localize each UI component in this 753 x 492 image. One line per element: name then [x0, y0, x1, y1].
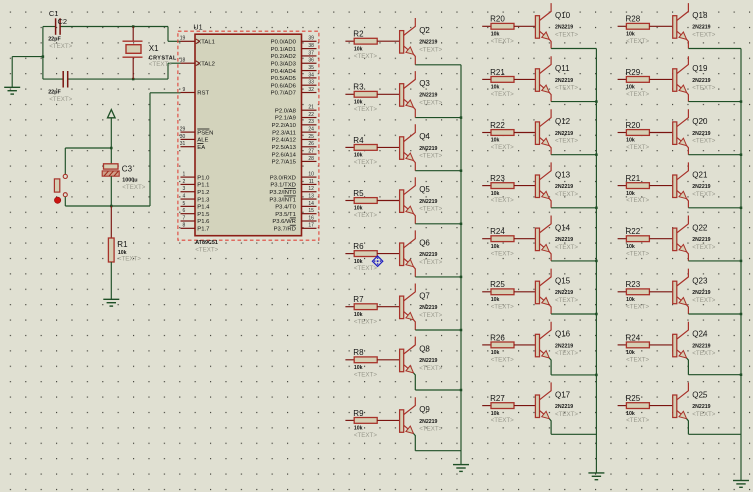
svg-text:R25: R25	[490, 280, 505, 289]
pin 10 P3.0/RXD	[270, 172, 317, 182]
svg-text:Q22: Q22	[692, 223, 708, 232]
transistor Q12	[535, 109, 573, 145]
button SW1	[54, 174, 67, 203]
label Q22 TEXT	[692, 244, 715, 251]
svg-text:32: 32	[308, 87, 314, 93]
resistor R26	[482, 333, 514, 356]
label U1 reference	[193, 22, 202, 31]
svg-text:18: 18	[180, 58, 186, 64]
wire base R24-Q24	[649, 344, 672, 346]
pin 1 P1.0	[181, 172, 211, 182]
wire emitter Q3	[414, 107, 462, 117]
label Q7 TEXT	[419, 312, 442, 319]
svg-text:14: 14	[308, 201, 314, 207]
svg-text:<TEXT>: <TEXT>	[626, 38, 649, 45]
svg-text:Q15: Q15	[555, 277, 571, 286]
svg-text:Q17: Q17	[555, 390, 571, 399]
svg-text:Q21: Q21	[692, 170, 708, 179]
pin 24 P2.3/A11	[272, 127, 316, 137]
transistor Q15	[535, 269, 573, 305]
wire emitter Q25	[687, 419, 741, 435]
svg-text:P3.7/RD: P3.7/RD	[274, 227, 296, 233]
svg-text:R23: R23	[626, 280, 641, 289]
svg-text:<TEXT>: <TEXT>	[354, 53, 377, 60]
pin 12 P3.2/INT0	[269, 186, 316, 196]
transistor Q4	[400, 124, 438, 160]
svg-text:<TEXT>: <TEXT>	[692, 297, 715, 304]
wire emitter Q8	[414, 373, 462, 390]
transistor Q20	[673, 109, 711, 145]
wire base R5-Q5	[377, 200, 399, 202]
wire emitter Q15	[549, 305, 596, 314]
label R2 TEXT	[354, 53, 377, 60]
pin 36 P0.3/AD3	[271, 58, 317, 68]
label R7 TEXT	[354, 318, 377, 325]
wire emitter Q24	[687, 358, 741, 375]
svg-text:<TEXT>: <TEXT>	[692, 411, 715, 418]
svg-text:2N2219: 2N2219	[692, 78, 710, 84]
pin 31 EA	[180, 141, 205, 151]
svg-text:<TEXT>: <TEXT>	[149, 61, 172, 68]
svg-text:34: 34	[308, 72, 314, 78]
resistor R21	[618, 174, 650, 197]
pin 23 P2.2/A10	[272, 119, 317, 129]
label R28 TEXT	[626, 38, 649, 45]
resistor R2	[345, 30, 377, 53]
svg-text:23: 23	[308, 119, 314, 125]
resistor R4	[345, 136, 377, 159]
svg-text:2N2219: 2N2219	[555, 290, 573, 296]
wire emitter Q17	[549, 419, 596, 435]
svg-text:RST: RST	[197, 91, 209, 97]
pin 32 P0.7/AD7	[271, 87, 317, 97]
svg-text:21: 21	[308, 105, 314, 111]
svg-text:P2.5/A13: P2.5/A13	[272, 145, 297, 151]
svg-text:<TEXT>: <TEXT>	[419, 153, 442, 160]
resistor R20	[618, 121, 650, 144]
svg-text:P3.1/TXD: P3.1/TXD	[270, 183, 296, 189]
svg-text:P2.0/A8: P2.0/A8	[275, 108, 297, 114]
svg-text:R27: R27	[490, 394, 505, 403]
wire emitter Q5	[414, 214, 462, 224]
wire base R4-Q4	[377, 146, 399, 148]
svg-text:Q16: Q16	[555, 330, 571, 339]
label R23 TEXT	[491, 197, 514, 204]
svg-text:<TEXT>: <TEXT>	[692, 350, 715, 357]
svg-text:<TEXT>: <TEXT>	[555, 297, 578, 304]
transistor Q3	[400, 71, 438, 107]
wire base R23-Q23	[649, 291, 672, 293]
wire emitter Q18	[687, 39, 741, 48]
label C2 TEXT	[49, 96, 72, 103]
transistor Q22	[673, 216, 711, 252]
label R20 TEXT	[626, 144, 649, 151]
label U1 value AT89C51	[195, 240, 218, 246]
svg-text:<TEXT>: <TEXT>	[354, 432, 377, 439]
svg-text:Q24: Q24	[692, 330, 708, 339]
pin 16 P3.6/WR	[272, 215, 316, 225]
resistor R24	[618, 333, 650, 356]
transistor Q9	[400, 397, 438, 433]
svg-text:2N2219: 2N2219	[419, 305, 437, 311]
svg-text:<TEXT>: <TEXT>	[626, 417, 649, 424]
wire base R22-Q12	[514, 132, 535, 134]
wire base R20-Q20	[649, 132, 672, 134]
label Q3 TEXT	[419, 100, 442, 107]
svg-text:P0.1/AD1: P0.1/AD1	[271, 47, 296, 53]
label R21 TEXT	[491, 91, 514, 98]
svg-text:R21: R21	[490, 68, 505, 77]
svg-text:10k: 10k	[626, 32, 635, 38]
pin 14 P3.4/T0	[275, 201, 316, 211]
svg-text:R9: R9	[353, 409, 364, 418]
svg-text:1000u: 1000u	[122, 178, 137, 184]
resistor R22	[618, 227, 650, 250]
svg-text:<TEXT>: <TEXT>	[419, 46, 442, 53]
svg-text:28: 28	[308, 156, 314, 162]
svg-text:<TEXT>: <TEXT>	[626, 357, 649, 364]
svg-text:XTAL2: XTAL2	[197, 61, 215, 67]
svg-text:<TEXT>: <TEXT>	[419, 365, 442, 372]
svg-text:<TEXT>: <TEXT>	[195, 246, 218, 253]
pin 37 P0.2/AD2	[271, 50, 317, 60]
transistor Q24	[673, 322, 711, 358]
svg-text:<TEXT>: <TEXT>	[49, 96, 72, 103]
wire XTAL1 net top	[43, 27, 181, 42]
svg-text:22pF: 22pF	[48, 90, 61, 96]
pin 5 P1.4	[181, 201, 211, 211]
wire base R2-Q2	[377, 40, 399, 42]
svg-text:P2.4/A12: P2.4/A12	[272, 138, 296, 144]
label X1 TEXT	[149, 61, 172, 68]
svg-text:10k: 10k	[354, 100, 363, 106]
label R5 TEXT	[354, 212, 377, 219]
svg-text:2N2219: 2N2219	[419, 40, 437, 46]
label R22 TEXT	[626, 250, 649, 257]
wire base R8-Q8	[377, 359, 399, 361]
pin 30 ALE	[180, 134, 209, 144]
transistor Q21	[673, 162, 711, 198]
pin 15 P3.5/T1	[275, 208, 316, 218]
svg-text:<TEXT>: <TEXT>	[555, 138, 578, 145]
svg-text:<TEXT>: <TEXT>	[626, 250, 649, 257]
svg-text:<TEXT>: <TEXT>	[354, 106, 377, 113]
label R20 TEXT	[491, 38, 514, 45]
wire button top	[65, 147, 112, 175]
label R9 TEXT	[354, 432, 377, 439]
transistor Q23	[673, 269, 711, 305]
svg-text:R28: R28	[626, 15, 641, 24]
wire base R23-Q13	[514, 185, 535, 187]
svg-text:R24: R24	[626, 333, 641, 342]
label Q5 TEXT	[419, 206, 442, 213]
resistor R1	[108, 206, 128, 299]
svg-text:10k: 10k	[491, 297, 500, 303]
wire base R25-Q15	[514, 291, 535, 293]
wire emitter Q16	[549, 358, 596, 375]
svg-text:12: 12	[308, 186, 314, 192]
op-amp U1 dashed selection box	[178, 31, 319, 240]
svg-text:11: 11	[309, 179, 314, 185]
label R25 TEXT	[491, 303, 514, 310]
svg-text:P1.0: P1.0	[197, 175, 210, 181]
svg-text:37: 37	[308, 50, 314, 56]
svg-text:<TEXT>: <TEXT>	[626, 144, 649, 151]
svg-text:R7: R7	[353, 295, 364, 304]
svg-text:2N2219: 2N2219	[692, 131, 710, 137]
label Q12 TEXT	[555, 138, 578, 145]
resistor R7	[345, 295, 377, 318]
wire base R21-Q21	[649, 185, 672, 187]
wire emitter Q9	[414, 434, 462, 451]
svg-text:C3: C3	[122, 165, 133, 174]
resistor R21	[482, 68, 514, 91]
svg-text:36: 36	[308, 58, 314, 64]
svg-text:Q23: Q23	[692, 277, 708, 286]
wire base R3-Q3	[377, 93, 399, 95]
resistor R20	[482, 15, 514, 38]
node origin marker (blue diamond)	[372, 256, 382, 266]
svg-text:10k: 10k	[491, 411, 500, 417]
svg-text:10k: 10k	[491, 32, 500, 38]
wire emitter bus column 2	[595, 49, 598, 473]
svg-text:30: 30	[180, 134, 186, 140]
label R27 TEXT	[491, 417, 514, 424]
label R24 TEXT	[626, 357, 649, 364]
resistor R25	[482, 280, 514, 303]
svg-text:R8: R8	[353, 348, 364, 357]
svg-text:2N2219: 2N2219	[692, 237, 710, 243]
svg-text:2N2219: 2N2219	[692, 184, 710, 190]
svg-text:<TEXT>: <TEXT>	[692, 191, 715, 198]
capacitor C2	[48, 71, 67, 96]
svg-text:2N2219: 2N2219	[692, 25, 710, 31]
svg-text:10: 10	[308, 172, 314, 178]
pin 17 P3.7/RD	[274, 223, 317, 233]
wire emitter Q19	[687, 93, 741, 102]
pin 4 P1.3	[181, 193, 211, 203]
label Q8 TEXT	[419, 365, 442, 372]
pin 6 P1.5	[181, 208, 211, 218]
label C1 TEXT	[49, 43, 72, 50]
label Q13 TEXT	[555, 191, 578, 198]
svg-text:10k: 10k	[354, 206, 363, 212]
transistor Q5	[400, 177, 438, 213]
label Q15 TEXT	[555, 297, 578, 304]
svg-text:<TEXT>: <TEXT>	[419, 259, 442, 266]
svg-text:10k: 10k	[354, 153, 363, 159]
svg-text:<TEXT>: <TEXT>	[491, 38, 514, 45]
transistor Q17	[535, 382, 573, 418]
svg-text:<TEXT>: <TEXT>	[49, 43, 72, 50]
wire base R9-Q9	[377, 419, 399, 421]
svg-text:1: 1	[183, 172, 186, 178]
svg-text:P1.3: P1.3	[197, 197, 210, 203]
svg-text:Q7: Q7	[419, 291, 430, 300]
svg-text:39: 39	[308, 36, 314, 42]
svg-text:R5: R5	[353, 189, 364, 198]
label R1 TEXT	[118, 256, 141, 263]
svg-text:Q6: Q6	[419, 238, 430, 247]
svg-text:<TEXT>: <TEXT>	[354, 371, 377, 378]
svg-text:19: 19	[180, 36, 186, 42]
label R24 TEXT	[491, 250, 514, 257]
svg-text:R25: R25	[626, 394, 641, 403]
svg-text:Q25: Q25	[692, 390, 708, 399]
wire emitter Q11	[549, 93, 596, 102]
svg-text:10k: 10k	[354, 259, 363, 265]
node junction crystal bottom	[132, 78, 135, 81]
pin 9 RST	[181, 87, 210, 97]
svg-text:10k: 10k	[491, 244, 500, 250]
capacitor C1	[48, 9, 67, 42]
svg-text:P1.4: P1.4	[197, 205, 210, 211]
svg-text:10k: 10k	[626, 138, 635, 144]
transistor Q7	[400, 284, 438, 320]
svg-text:<TEXT>: <TEXT>	[626, 303, 649, 310]
svg-text:<TEXT>: <TEXT>	[491, 144, 514, 151]
transistor Q19	[673, 56, 711, 92]
resistor R9	[345, 409, 377, 432]
svg-text:7: 7	[183, 215, 186, 221]
pin 22 P2.1/A9	[275, 112, 317, 122]
label R4 TEXT	[354, 159, 377, 166]
svg-text:Q5: Q5	[419, 185, 430, 194]
label Q2 TEXT	[419, 46, 442, 53]
svg-text:10k: 10k	[354, 426, 363, 432]
svg-text:24: 24	[308, 127, 314, 133]
transistor Q2	[400, 18, 438, 54]
svg-text:Q8: Q8	[419, 345, 430, 354]
pin 19 XTAL1	[180, 36, 215, 46]
label Q24 TEXT	[692, 350, 715, 357]
svg-text:10k: 10k	[491, 138, 500, 144]
svg-text:Q13: Q13	[555, 170, 571, 179]
svg-text:<TEXT>: <TEXT>	[626, 197, 649, 204]
resistor R28	[618, 15, 650, 38]
svg-text:P1.5: P1.5	[197, 212, 210, 218]
svg-text:2N2219: 2N2219	[692, 404, 710, 410]
wire emitter Q2	[414, 54, 462, 65]
svg-text:P3.6/WR: P3.6/WR	[272, 219, 296, 225]
svg-text:<TEXT>: <TEXT>	[491, 357, 514, 364]
svg-text:2N2219: 2N2219	[555, 184, 573, 190]
svg-text:<TEXT>: <TEXT>	[555, 191, 578, 198]
svg-text:Q2: Q2	[419, 26, 430, 35]
svg-text:9: 9	[183, 87, 186, 93]
svg-text:33: 33	[308, 80, 314, 86]
svg-text:R21: R21	[626, 174, 641, 183]
svg-text:X1: X1	[149, 44, 159, 53]
ground GND1	[4, 87, 20, 94]
svg-text:P3.4/T0: P3.4/T0	[275, 205, 296, 211]
svg-text:P0.7/AD7: P0.7/AD7	[271, 91, 296, 97]
svg-text:P3.3/INT1: P3.3/INT1	[269, 197, 296, 203]
svg-text:10k: 10k	[491, 85, 500, 91]
svg-text:P3.2/INT0: P3.2/INT0	[269, 190, 296, 196]
svg-text:P2.3/A11: P2.3/A11	[272, 130, 296, 136]
transistor Q14	[535, 216, 573, 252]
wire base R25-Q25	[649, 405, 672, 407]
svg-text:Q4: Q4	[419, 132, 430, 141]
svg-text:R2: R2	[353, 30, 364, 39]
svg-text:22: 22	[308, 112, 314, 118]
svg-text:<TEXT>: <TEXT>	[692, 244, 715, 251]
svg-text:R6: R6	[353, 242, 364, 251]
svg-text:P0.5/AD5: P0.5/AD5	[271, 76, 297, 82]
svg-text:C2: C2	[58, 17, 68, 26]
svg-text:5: 5	[183, 201, 186, 207]
svg-text:2: 2	[183, 179, 186, 185]
wire emitter Q23	[687, 305, 741, 314]
svg-text:P1.1: P1.1	[197, 183, 209, 189]
label Q11 TEXT	[555, 85, 578, 92]
svg-text:P0.3/AD3: P0.3/AD3	[271, 61, 297, 67]
svg-text:P2.2/A10: P2.2/A10	[272, 123, 297, 129]
resistor R23	[482, 174, 514, 197]
ground GND column 2	[588, 473, 604, 480]
pin 13 P3.3/INT1	[269, 193, 316, 203]
svg-text:R4: R4	[353, 136, 364, 145]
label R22 TEXT	[491, 144, 514, 151]
transistor Q10	[535, 3, 573, 39]
transistor Q18	[673, 3, 711, 39]
svg-text:10k: 10k	[491, 350, 500, 356]
svg-text:2N2219: 2N2219	[419, 93, 437, 99]
label R25 TEXT	[626, 417, 649, 424]
svg-text:38: 38	[308, 43, 314, 49]
wire emitter Q13	[549, 199, 596, 208]
svg-text:Q19: Q19	[692, 64, 708, 73]
svg-text:P2.1/A9: P2.1/A9	[275, 116, 296, 122]
wire base R22-Q22	[649, 238, 672, 240]
svg-text:10k: 10k	[626, 191, 635, 197]
op-amp U1 AT89C51 body	[195, 34, 302, 236]
svg-text:<TEXT>: <TEXT>	[491, 417, 514, 424]
transistor Q6	[400, 230, 438, 266]
svg-text:3: 3	[183, 186, 186, 192]
svg-text:<TEXT>: <TEXT>	[692, 32, 715, 39]
svg-text:<TEXT>: <TEXT>	[491, 250, 514, 257]
wire emitter Q7	[414, 320, 462, 330]
ground GND column 1	[453, 465, 469, 472]
wire emitter Q20	[687, 146, 741, 155]
svg-text:Q10: Q10	[555, 11, 571, 20]
wire base R7-Q7	[377, 306, 399, 308]
wire emitter Q6	[414, 267, 462, 277]
svg-text:2N2219: 2N2219	[419, 419, 437, 425]
label C3 TEXT	[122, 184, 145, 191]
resistor R24	[482, 227, 514, 250]
svg-text:Q18: Q18	[692, 11, 708, 20]
resistor R27	[482, 394, 514, 417]
svg-text:2N2219: 2N2219	[419, 199, 437, 205]
label Q23 TEXT	[692, 297, 715, 304]
pin 2 P1.1	[181, 179, 210, 189]
svg-text:<TEXT>: <TEXT>	[555, 244, 578, 251]
svg-text:8: 8	[183, 223, 186, 229]
resistor R29	[618, 68, 650, 91]
svg-text:R20: R20	[490, 15, 505, 24]
power VCC arrow	[108, 110, 116, 164]
svg-text:2N2219: 2N2219	[555, 343, 573, 349]
svg-text:Q11: Q11	[555, 64, 570, 73]
label Q14 TEXT	[555, 244, 578, 251]
svg-text:P0.0/AD0: P0.0/AD0	[271, 40, 297, 46]
label Q10 TEXT	[555, 32, 578, 39]
pin 26 P2.5/A13	[272, 141, 317, 151]
label Q19 TEXT	[692, 85, 715, 92]
